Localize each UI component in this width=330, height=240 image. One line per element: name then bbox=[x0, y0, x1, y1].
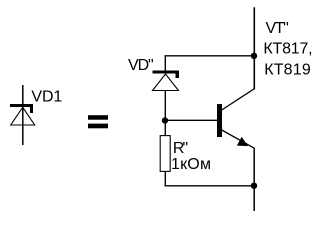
wire: VD" anode lead down to node bbox=[164, 91, 166, 137]
equals sign top bar bbox=[88, 115, 108, 120]
wire: resistor bottom lead bbox=[164, 171, 166, 186]
svg-text:R": R" bbox=[173, 140, 188, 157]
junction dot: emitter node bbox=[251, 183, 257, 189]
diode VD1 zener cathode bar bbox=[10, 104, 33, 113]
svg-text:VD1: VD1 bbox=[31, 89, 62, 106]
svg-text:VD": VD" bbox=[128, 57, 153, 74]
resistor R" body bbox=[160, 136, 170, 172]
wire: VD" cathode lead bbox=[164, 56, 166, 72]
junction dot: zener/resistor/base node bbox=[162, 117, 168, 123]
wire: emitter vertical to bottom edge bbox=[253, 148, 255, 211]
transistor VT" emitter diagonal bbox=[222, 130, 255, 148]
svg-text:1кОм: 1кОм bbox=[171, 156, 211, 173]
diode VD1 vertical lead wire bbox=[22, 85, 24, 145]
transistor VT" emitter arrow bbox=[237, 137, 248, 146]
wire: bottom horizontal to emitter node bbox=[165, 185, 255, 187]
wire: collector rail going up bbox=[253, 7, 255, 89]
equals sign bottom bar bbox=[88, 124, 108, 129]
transistor VT" collector diagonal bbox=[222, 89, 255, 110]
svg-text:VT": VT" bbox=[266, 20, 289, 37]
junction dot: collector node bbox=[251, 53, 257, 59]
diode VD1 anode triangle bbox=[11, 107, 35, 125]
transistor VT" base bar bbox=[217, 104, 222, 137]
wire: base wire to transistor bbox=[165, 119, 217, 121]
diode VD" anode triangle bbox=[153, 74, 179, 91]
wire: top horizontal from VD" cathode to collector rail bbox=[165, 55, 255, 57]
svg-text:КТ817,: КТ817, bbox=[263, 40, 312, 57]
diode VD" zener cathode bar bbox=[153, 71, 180, 79]
svg-text:КТ819: КТ819 bbox=[264, 61, 311, 78]
